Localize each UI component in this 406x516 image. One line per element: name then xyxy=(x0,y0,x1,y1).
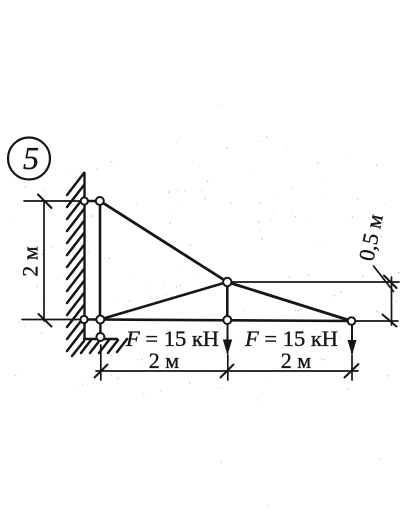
link B wall to B xyxy=(84,318,100,321)
pin node B wall xyxy=(80,316,87,323)
pin node A xyxy=(96,197,104,205)
node E xyxy=(348,317,356,325)
right dimension tick upper xyxy=(384,276,397,289)
floor edge line xyxy=(84,338,117,340)
link A wall to A xyxy=(84,200,100,202)
member BE bottom chord xyxy=(100,320,352,322)
pin node A wall xyxy=(81,197,88,204)
svg-text:5: 5 xyxy=(23,140,39,176)
member BC diagonal xyxy=(100,282,227,320)
problem number circle 5 xyxy=(8,138,50,180)
right dimension extension line upper xyxy=(227,281,399,283)
force arrow F1 head xyxy=(223,340,232,356)
member CE top chord right xyxy=(227,282,351,321)
left dimension tick bottom xyxy=(39,314,52,327)
member AB vertical at wall xyxy=(99,201,102,320)
bottom extension line left xyxy=(100,345,102,380)
pin node B floor xyxy=(96,333,104,341)
member CD vertical xyxy=(226,282,229,320)
left dimension extension line bottom xyxy=(22,319,84,321)
link B to floor pin xyxy=(99,320,101,338)
force arrow F1 shaft xyxy=(227,324,229,353)
bottom dimension line xyxy=(96,370,358,372)
node D xyxy=(223,316,231,324)
svg-text:2 м: 2 м xyxy=(18,246,43,277)
force arrow F2 shaft xyxy=(351,325,353,353)
svg-text:2 м: 2 м xyxy=(281,348,312,373)
bottom extension line middle xyxy=(227,355,229,380)
left dimension extension line top xyxy=(24,200,84,202)
right dimension extension line lower xyxy=(352,320,399,322)
svg-text:0,5 м: 0,5 м xyxy=(354,212,388,263)
right dimension line 0.5m vertical xyxy=(391,277,393,325)
force arrow F2 head xyxy=(348,340,357,355)
left dimension tick top xyxy=(38,195,52,209)
bottom dimension tick right xyxy=(345,364,359,378)
member AC top chord left xyxy=(100,201,227,282)
floor hatching xyxy=(81,339,127,353)
svg-text:2 м: 2 м xyxy=(149,348,180,373)
bottom dimension tick middle xyxy=(221,365,234,378)
wall hatching xyxy=(67,173,84,356)
bottom dimension tick left xyxy=(95,365,108,378)
bottom extension line right xyxy=(351,355,353,380)
right dimension tick lower xyxy=(383,315,397,327)
left dimension line 2m vertical xyxy=(43,201,45,321)
wall face line xyxy=(83,173,85,339)
leader line 0.5m xyxy=(374,266,394,292)
pin node B xyxy=(96,316,104,324)
node C xyxy=(223,278,231,286)
